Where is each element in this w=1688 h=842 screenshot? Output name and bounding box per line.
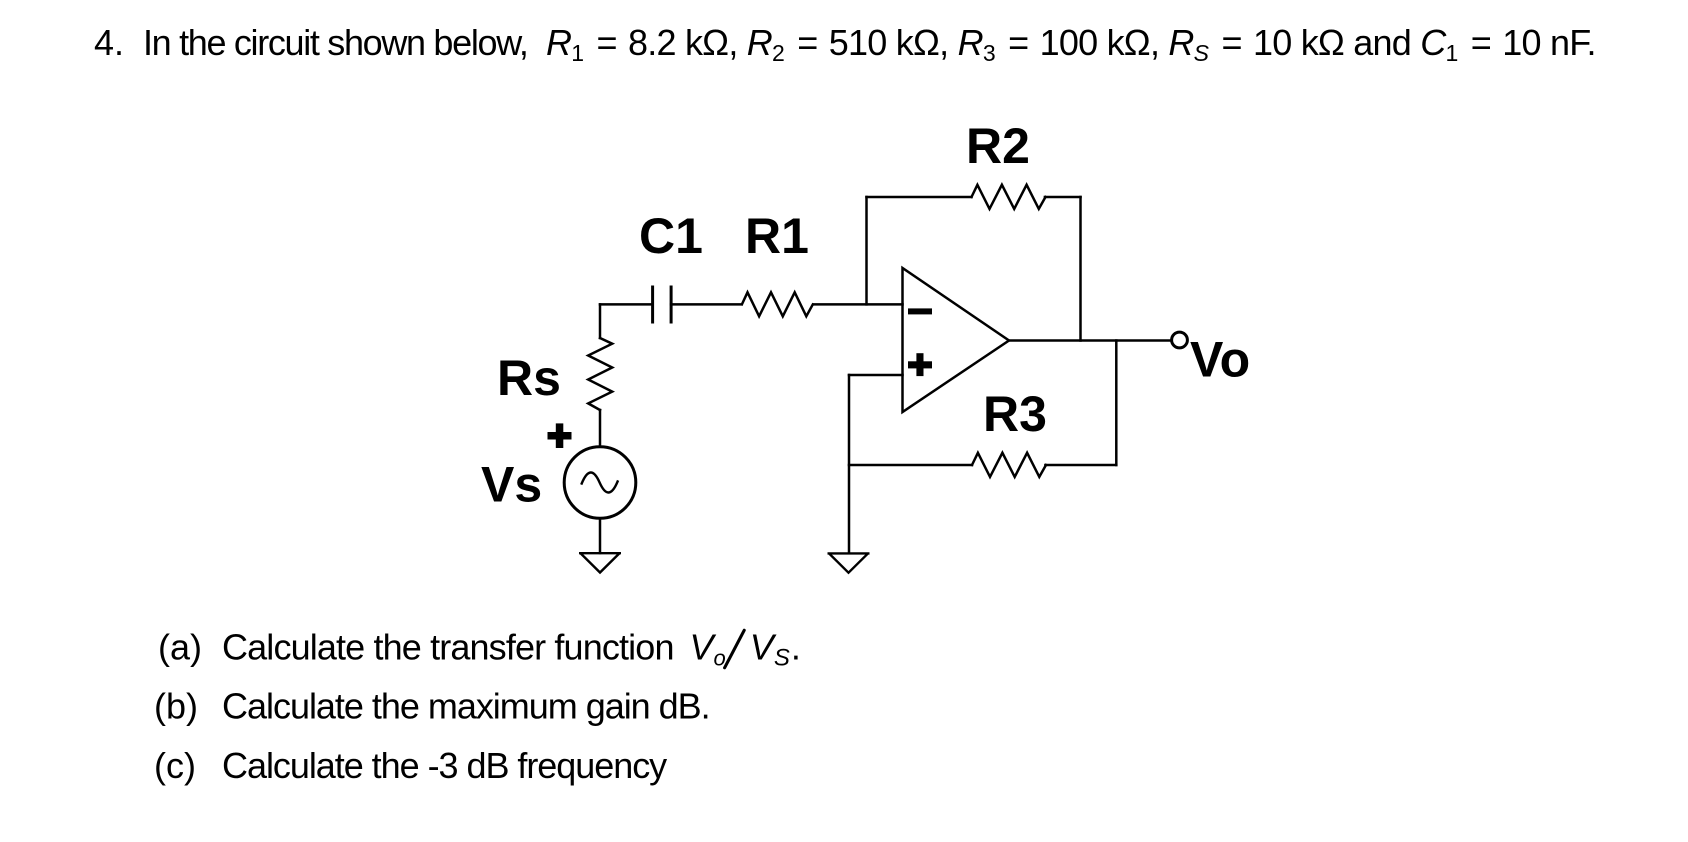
resistor R3 [972, 453, 1046, 477]
label Rs [497, 350, 561, 406]
source Vs [564, 447, 636, 519]
resistor R2 [972, 185, 1046, 209]
svg-text:(a): (a) [158, 626, 202, 667]
svg-text:R1 = 8.2 kΩ, R2 = 510 kΩ, R3 =: R1 = 8.2 kΩ, R2 = 510 kΩ, R3 = 100 kΩ, R… [546, 22, 1596, 66]
svg-text:C1: C1 [639, 208, 703, 264]
ground below non-inverting branch [829, 553, 869, 572]
wire Vs to ground [599, 520, 602, 554]
resistor R1 [742, 292, 813, 316]
label R1 [745, 208, 809, 264]
wire R3 right [1045, 464, 1116, 467]
wire feedback top left to R2 [867, 196, 972, 199]
svg-text:Calculate the transfer functio: Calculate the transfer function [222, 626, 674, 667]
label Vo [1190, 332, 1250, 388]
wire feedback branch up from inverting node [865, 197, 868, 304]
wire Rs to Vs [599, 410, 602, 446]
label Vs [481, 457, 542, 513]
problem statement line [94, 22, 1596, 66]
svg-text:(b): (b) [154, 686, 198, 727]
svg-text:Vo: Vo [690, 626, 726, 670]
svg-text:R2: R2 [966, 118, 1030, 174]
capacitor C1 [653, 287, 672, 322]
svg-text:(c): (c) [154, 745, 196, 786]
ground below Vs [580, 553, 620, 572]
wire R1 to op-amp inverting input [814, 303, 903, 306]
polarity plus of Vs [548, 423, 572, 448]
wire output [1009, 339, 1171, 342]
svg-text:R1: R1 [745, 208, 809, 264]
label C1 [639, 208, 703, 264]
op-amp non-inverting pin plus sign [908, 353, 932, 376]
wire R3 left [849, 464, 972, 467]
label R2 [966, 118, 1030, 174]
op-amp U1 [903, 268, 1010, 412]
question item a [158, 626, 801, 671]
svg-text:Vs: Vs [481, 457, 542, 513]
wire non-inverting input [849, 374, 903, 377]
wire corner down to Rs [599, 304, 602, 338]
wire non-inverting branch down to ground [848, 375, 851, 553]
svg-text:Rs: Rs [497, 350, 561, 406]
wire input top from Vs corner to C1 [600, 303, 653, 306]
wire R3 branch up to output [1115, 341, 1118, 466]
wire C1 to R1 [671, 303, 740, 306]
question item b [154, 686, 710, 727]
question item c [154, 745, 667, 786]
svg-text:R3: R3 [983, 386, 1047, 442]
svg-text:VS.: VS. [750, 626, 801, 671]
resistor Rs [588, 338, 612, 410]
node Vo terminal [1172, 332, 1188, 348]
op-amp inverting pin minus sign [908, 308, 932, 314]
svg-text:Calculate the -3 dB frequency: Calculate the -3 dB frequency [222, 745, 667, 786]
wire R2 to right corner [1045, 196, 1081, 199]
svg-text:Vo: Vo [1190, 332, 1250, 388]
label R3 [983, 386, 1047, 442]
svg-text:Calculate the maximum gain dB.: Calculate the maximum gain dB. [222, 686, 710, 727]
svg-text:In the circuit shown below,: In the circuit shown below, [143, 22, 528, 63]
svg-text:4.: 4. [94, 22, 124, 63]
wire R2 right branch down to output [1079, 197, 1082, 341]
